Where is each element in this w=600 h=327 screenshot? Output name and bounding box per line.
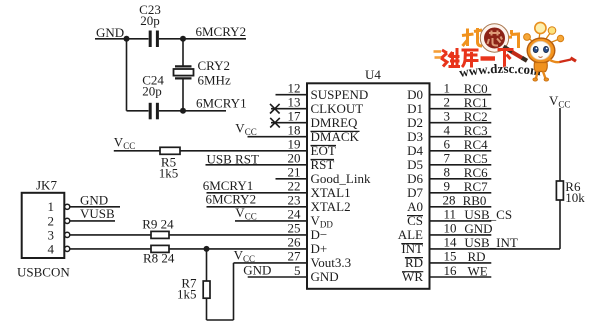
svg-text:Good_Link: Good_Link	[311, 171, 371, 186]
svg-text:D1: D1	[407, 101, 423, 116]
svg-text:U4: U4	[365, 67, 381, 82]
svg-text:27: 27	[288, 249, 302, 264]
svg-text:RC4: RC4	[464, 137, 488, 152]
svg-text:XTAL2: XTAL2	[311, 199, 351, 214]
overline INT	[401, 243, 423, 245]
wire pin 3 RC2	[430, 122, 492, 124]
svg-text:D2: D2	[407, 115, 423, 130]
svg-text:RC7: RC7	[464, 179, 488, 194]
red char xia (下)	[498, 50, 514, 68]
wire C23 to 6MCRY2 node	[159, 38, 246, 40]
wire pin 17 DMREQ	[271, 122, 307, 124]
svg-text:D7: D7	[407, 185, 423, 200]
svg-text:23: 23	[288, 193, 301, 208]
svg-text:WE: WE	[468, 263, 488, 278]
mascot right arm holding red tool	[549, 60, 560, 63]
wire pin 6 RC4	[430, 150, 492, 152]
svg-text:8: 8	[444, 165, 451, 180]
mascot head	[527, 38, 555, 63]
svg-text:A0: A0	[407, 199, 423, 214]
watermark logo (dzsc.com)	[434, 22, 577, 81]
wire pin 13 CLKOUT	[271, 108, 307, 110]
svg-text:Vout3.3: Vout3.3	[311, 255, 352, 270]
svg-text:26: 26	[288, 235, 302, 250]
svg-text:DMREQ: DMREQ	[311, 115, 359, 130]
wire pin 22 XTAL1 (6MCRY1)	[207, 192, 308, 194]
svg-text:9: 9	[444, 179, 451, 194]
svg-text:RC0: RC0	[464, 81, 488, 96]
wire JK7 pin2 VUSB stub	[70, 220, 115, 222]
mascot eyes	[533, 46, 538, 52]
wire pin 16 WE	[430, 276, 492, 278]
svg-text:1k5: 1k5	[159, 165, 179, 180]
mascot face	[531, 41, 551, 59]
svg-text:7: 7	[444, 151, 451, 166]
right net labels	[463, 81, 518, 278]
svg-text:4: 4	[48, 241, 55, 256]
svg-text:R8 24: R8 24	[143, 250, 175, 265]
svg-text:RC3: RC3	[464, 123, 488, 138]
mascot mouth	[539, 56, 543, 59]
wire pin 2 RC1	[430, 108, 492, 110]
svg-text:R9 24: R9 24	[142, 217, 174, 232]
svg-text:SUSPEND: SUSPEND	[311, 87, 369, 102]
no-connect X on pin 17	[270, 118, 280, 128]
svg-text:GND: GND	[96, 25, 124, 40]
wire pin 19 EOT (to R5/Vcc)	[114, 150, 307, 152]
overline RST	[311, 159, 335, 161]
svg-text:CLKOUT: CLKOUT	[311, 101, 364, 116]
wire pin 28 RB0	[430, 206, 492, 208]
svg-text:3: 3	[444, 109, 451, 124]
wire pin 23 XTAL2 (6MCRY2)	[207, 206, 308, 208]
mascot body	[534, 63, 547, 72]
svg-text:RC2: RC2	[464, 109, 488, 124]
resistor R5 1k5 (pin19 to Vcc)	[160, 147, 180, 154]
inside left pin names	[311, 87, 371, 284]
svg-text:22: 22	[288, 179, 301, 194]
junction dot C (C24/crystal/6MCRY1)	[180, 108, 186, 114]
svg-text:6: 6	[444, 137, 451, 152]
red char wei (维)	[441, 48, 460, 67]
JK7 pin 4 circle	[65, 246, 70, 251]
svg-text:20p: 20p	[142, 84, 162, 99]
svg-text:4: 4	[444, 123, 451, 138]
overline EOT	[311, 145, 337, 147]
overline WR	[402, 271, 423, 273]
svg-text:CRY2: CRY2	[198, 58, 231, 73]
inside right pin names	[398, 87, 424, 284]
crystal CRY2 symbol	[175, 66, 192, 78]
svg-text:6MCRY2: 6MCRY2	[196, 24, 247, 39]
connector JK7 box	[22, 193, 65, 258]
svg-text:GND: GND	[243, 262, 271, 277]
resistor R8 24 (D+ line)	[151, 245, 169, 252]
speed dashes	[434, 52, 442, 58]
mascot legs	[536, 72, 538, 79]
svg-text:14: 14	[444, 235, 458, 250]
svg-text:1: 1	[444, 81, 451, 96]
overline RD	[405, 257, 423, 259]
svg-text:10: 10	[444, 221, 457, 236]
red char ku (库)	[462, 50, 479, 68]
orange char pian (片)	[506, 30, 519, 49]
wire C24 to 6MCRY1 node	[159, 110, 226, 112]
svg-text:JK7: JK7	[36, 177, 57, 192]
svg-text:USB RST: USB RST	[207, 152, 259, 167]
wire pin 25 D- (from JK7 pin3 via R9)	[70, 234, 307, 236]
wire pin 4 RC3	[430, 136, 492, 138]
right pin wires	[430, 95, 561, 277]
svg-text:D4: D4	[407, 143, 423, 158]
JK7 pin 1 circle	[65, 204, 70, 209]
wire pin 15 RD	[430, 262, 492, 264]
svg-text:RB0: RB0	[463, 193, 487, 208]
svg-text:20p: 20p	[140, 13, 160, 28]
svg-text:20: 20	[288, 151, 301, 166]
wire D+ junction down to R7	[206, 249, 208, 281]
magnifier glyph xin (芯) inside	[488, 31, 503, 46]
right pin numbers	[443, 81, 458, 278]
svg-text:1k5: 1k5	[177, 287, 197, 302]
resistor R6 10k (vertical)	[556, 181, 563, 200]
svg-text:GND: GND	[464, 221, 492, 236]
wire pin 5 GND	[248, 276, 307, 278]
svg-text:6MCRY1: 6MCRY1	[196, 96, 247, 111]
junction dot A (GND/C23)	[124, 36, 130, 42]
wire Vcc down to R6	[559, 108, 561, 181]
www.dzsc.com text	[460, 73, 549, 77]
wire pin 7 RC5	[430, 164, 492, 166]
wire pin 20 RST (USB RST)	[206, 164, 308, 166]
svg-text:19: 19	[288, 137, 301, 152]
svg-text:5: 5	[294, 263, 301, 278]
JK7 pin 2 circle	[65, 218, 70, 223]
svg-text:USB_CS: USB_CS	[464, 207, 512, 222]
wire pin 11 USB_CS	[430, 220, 492, 222]
svg-text:2: 2	[444, 95, 451, 110]
svg-text:15: 15	[444, 249, 457, 264]
wire pin 27 Vout3.3 (Vcc)	[234, 262, 308, 264]
svg-text:D3: D3	[407, 129, 423, 144]
orange char zhao (找)	[462, 28, 482, 46]
svg-text:USBCON: USBCON	[17, 264, 70, 279]
svg-text:RC6: RC6	[464, 165, 488, 180]
wire pin 26 D+ (from JK7 pin4 via R8)	[70, 248, 307, 250]
svg-text:2: 2	[48, 213, 55, 228]
svg-text:GND: GND	[311, 269, 339, 284]
resistor R9 24 (D- line)	[151, 231, 169, 238]
wire up to pin 27 Vcc net	[233, 263, 235, 320]
svg-text:1: 1	[48, 199, 55, 214]
wire pin 9 RC7	[430, 192, 492, 194]
svg-text:RD: RD	[468, 249, 486, 264]
svg-text:21: 21	[288, 165, 301, 180]
wire pin 10 GND	[430, 234, 492, 236]
svg-text:D+: D+	[311, 241, 328, 256]
svg-text:ALE: ALE	[398, 227, 423, 242]
JK7 pin 3 circle	[65, 232, 70, 237]
svg-text:D−: D−	[311, 227, 328, 242]
svg-text:RC5: RC5	[464, 151, 488, 166]
mascot antenna balls	[535, 22, 546, 33]
wire pin 12 SUSPEND	[276, 94, 308, 96]
wire GND to C23	[95, 38, 149, 40]
svg-text:12: 12	[288, 81, 301, 96]
overline DMACK	[311, 130, 360, 132]
svg-text:3: 3	[48, 227, 55, 242]
svg-text:6MHz: 6MHz	[198, 72, 231, 87]
svg-text:25: 25	[288, 221, 301, 236]
wire left vertical (GND junction down to C24)	[126, 39, 128, 111]
svg-text:13: 13	[288, 95, 301, 110]
overline CS	[407, 215, 423, 217]
svg-text:17: 17	[288, 109, 302, 124]
wire R7 bottom horizontal	[207, 319, 234, 321]
wire C24 left	[127, 110, 149, 112]
wire pin 8 RC6	[430, 178, 492, 180]
svg-text:24: 24	[288, 207, 302, 222]
wire pin 18 DMACK	[248, 136, 308, 138]
svg-text:28: 28	[443, 193, 456, 208]
svg-text:18: 18	[288, 123, 301, 138]
wire crystal bottom vertical	[182, 78, 184, 110]
junction dot D+ / R7	[204, 246, 210, 252]
wire R6 bottom to USB_INT wire	[559, 200, 561, 249]
svg-text:D6: D6	[407, 171, 423, 186]
magnifier handle	[504, 47, 514, 53]
wire pin 24 VDD (Vcc)	[235, 220, 307, 222]
wire pin 1 RC0	[430, 94, 492, 96]
svg-text:VUSB: VUSB	[80, 206, 115, 221]
wire JK7 pin1 GND stub	[70, 206, 120, 208]
wire pin 14 USB_INT (to R6)	[430, 248, 561, 250]
svg-text:6MCRY2: 6MCRY2	[206, 192, 257, 207]
mascot antenna stalks	[529, 32, 559, 43]
svg-text:USB_INT: USB_INT	[464, 235, 518, 250]
svg-text:11: 11	[444, 207, 457, 222]
svg-text:D5: D5	[407, 157, 423, 172]
svg-text:10k: 10k	[565, 190, 585, 205]
magnifier glass	[482, 26, 506, 50]
capacitor C23 plates	[150, 31, 157, 48]
svg-text:D0: D0	[407, 87, 423, 102]
svg-text:XTAL1: XTAL1	[311, 185, 351, 200]
left pin numbers	[288, 81, 302, 278]
junction dot B (C23/crystal/6MCRY2)	[180, 36, 186, 42]
no-connect X on pin 13	[270, 104, 280, 114]
left pin wires	[70, 95, 307, 277]
red char yi (一)	[481, 56, 496, 60]
capacitor C24 plates	[150, 103, 157, 120]
svg-text:16: 16	[444, 263, 458, 278]
wire crystal top vertical	[182, 39, 184, 67]
op IC U4 box	[307, 83, 430, 288]
wire R7 bottom down	[206, 298, 208, 320]
resistor R7 1k5 (vertical)	[203, 281, 210, 298]
svg-text:RC1: RC1	[464, 95, 488, 110]
wire pin 21 Good_Link	[276, 178, 308, 180]
